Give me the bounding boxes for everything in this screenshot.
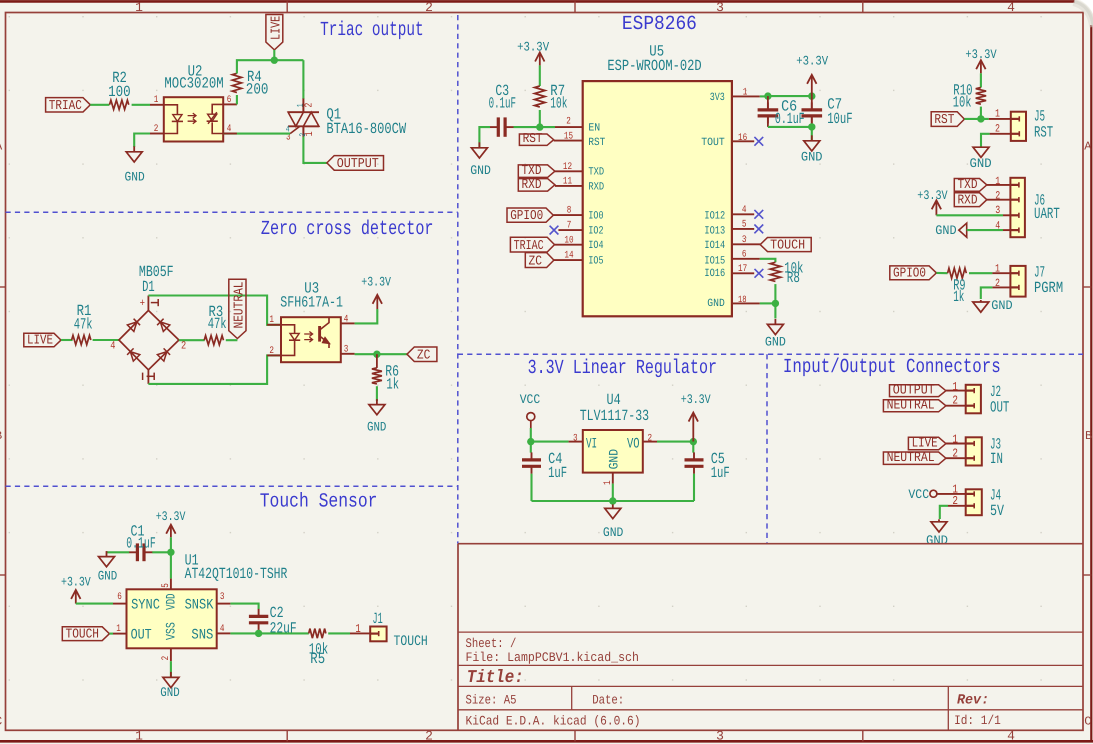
D1 plus terminal (147, 296, 149, 311)
wire R10 to RST junction (980, 107, 982, 119)
title block divider Date|Rev (947, 686, 949, 730)
svg-text:GND: GND (707, 298, 725, 310)
capacitor C3 (490, 126, 499, 128)
svg-text:47k: 47k (208, 315, 227, 333)
svg-text:BTA16-800CW: BTA16-800CW (326, 120, 406, 138)
svg-text:Rev:: Rev: (957, 692, 989, 708)
wire IO15 to R8 (760, 259, 776, 263)
wire VCC to U4 VI (531, 428, 569, 442)
power +3.3V (J6) (935, 202, 937, 215)
wire LIVE to junction (273, 50, 275, 60)
connector J5 RST (1011, 112, 1026, 141)
svg-text:4: 4 (344, 314, 349, 325)
section divider Regulator|IO-Connectors (766, 354, 768, 543)
J5 pin 2 (990, 133, 1011, 135)
wire D1 pin2 to R3 (179, 339, 205, 341)
svg-text:1: 1 (743, 88, 748, 99)
svg-text:IO14: IO14 (704, 240, 725, 252)
svg-text:LIVE: LIVE (27, 334, 53, 349)
title block row line 4 (458, 709, 1083, 711)
power +3.3V (zero cross) (376, 297, 378, 309)
ground below R6 (376, 399, 378, 405)
ground below C3 (478, 142, 480, 148)
U4 pin 1 GND (612, 473, 614, 484)
svg-text:File: LampPCBV1.kicad_sch: File: LampPCBV1.kicad_sch (466, 650, 639, 665)
svg-text:ZC: ZC (529, 254, 543, 269)
svg-text:A: A (1084, 140, 1092, 154)
svg-text:1uF: 1uF (711, 464, 730, 482)
svg-text:TOUCH: TOUCH (770, 238, 805, 253)
global label RXD (ESP) (518, 179, 555, 192)
svg-text:VI: VI (586, 436, 597, 452)
svg-text:VCC: VCC (908, 487, 929, 502)
svg-text:2: 2 (161, 656, 172, 661)
svg-text:GND: GND (603, 525, 624, 540)
resistor R1 (72, 335, 91, 344)
U1 pin 1 (113, 633, 127, 635)
svg-text:+3.3V: +3.3V (965, 47, 996, 62)
svg-text:OUT: OUT (990, 398, 1009, 416)
row tick A|B right (1083, 286, 1091, 288)
svg-text:IO5: IO5 (588, 255, 603, 267)
paper right edge (1090, 25, 1092, 741)
J6 pin 3 (1003, 214, 1010, 216)
global label NEUTRAL (J2) (883, 400, 946, 412)
wire D1 minus to U3 pin 2 (148, 355, 281, 384)
svg-text:SNSK: SNSK (185, 598, 214, 614)
svg-text:12: 12 (563, 162, 572, 173)
svg-text:Title:: Title: (467, 668, 524, 688)
svg-text:5: 5 (742, 220, 747, 231)
no-connect U5 pin 7 (558, 229, 582, 231)
wire R1 to bridge (93, 339, 119, 341)
wire +3.3V to R10 (980, 73, 982, 87)
wire C3 to junction (514, 126, 540, 128)
column tick 2|3 top (574, 1, 576, 12)
global label LIVE (J3) (908, 437, 946, 450)
svg-text:10k: 10k (550, 95, 567, 113)
svg-text:2: 2 (995, 278, 1000, 290)
U1 pin 5 VDD (170, 579, 172, 590)
resistor R8 (770, 262, 780, 281)
svg-text:+3.3V: +3.3V (361, 274, 391, 289)
svg-text:GND: GND (991, 298, 1012, 313)
svg-text:10: 10 (564, 235, 573, 246)
power +3.3V (R10 pullup) (980, 62, 982, 73)
svg-text:2: 2 (952, 494, 958, 508)
svg-text:IO4: IO4 (588, 240, 603, 252)
wire R4 to LIVE junction (237, 60, 304, 73)
wire U1 pin 4 to R5 (230, 632, 308, 634)
svg-text:LIVE: LIVE (912, 437, 938, 452)
svg-text:1: 1 (995, 176, 1000, 188)
svg-text:1k: 1k (953, 288, 964, 306)
paper top edge (0, 0, 1075, 3)
U5 pin 1 3V3 (732, 95, 760, 97)
svg-text:1: 1 (952, 380, 958, 394)
svg-text:7: 7 (567, 221, 572, 232)
U5 pin 6 IO15 (732, 258, 760, 260)
wire C1 to GND (107, 551, 130, 553)
svg-text:0.1uF: 0.1uF (489, 94, 516, 112)
title block row line 2 (458, 664, 1083, 666)
resistor R7 (535, 86, 545, 107)
svg-text:1: 1 (355, 622, 360, 636)
svg-text:NEUTRAL: NEUTRAL (233, 282, 248, 329)
ground below U2 (133, 146, 135, 152)
ground below regulator (612, 504, 614, 508)
global label NEUTRAL (J3) (883, 452, 946, 464)
svg-text:RST: RST (1034, 124, 1053, 142)
connector J3 IN (966, 437, 982, 465)
svg-text:1: 1 (154, 95, 159, 106)
wire +3.3V to J6 pin 3 (936, 214, 1003, 216)
svg-text:1: 1 (952, 433, 958, 447)
junction at SNS node (255, 630, 262, 637)
svg-text:R8: R8 (787, 269, 800, 287)
svg-text:+: + (140, 298, 145, 310)
section divider ESP|Regulator (458, 353, 1083, 355)
svg-text:Zero cross detector: Zero cross detector (261, 218, 434, 241)
capacitor C4 (530, 442, 532, 453)
svg-text:GPIO0: GPIO0 (510, 209, 543, 224)
svg-text:GND: GND (801, 149, 823, 164)
wire Q1 to OUTPUT label (303, 137, 327, 163)
svg-text:GPIO0: GPIO0 (893, 267, 926, 282)
svg-text:2: 2 (181, 341, 186, 353)
svg-text:LIVE: LIVE (269, 16, 284, 40)
svg-text:VO: VO (627, 436, 640, 452)
svg-text:2: 2 (995, 191, 1000, 203)
svg-text:AT42QT1010-TSHR: AT42QT1010-TSHR (185, 565, 288, 583)
capacitor C7 (811, 96, 813, 109)
svg-text:KiCad E.D.A. kicad (6.0.6): KiCad E.D.A. kicad (6.0.6) (466, 714, 641, 729)
wire J5 pin 2 to GND (981, 134, 990, 147)
svg-text:NEUTRAL: NEUTRAL (887, 451, 935, 466)
svg-text:2: 2 (648, 433, 653, 444)
svg-text:2: 2 (952, 394, 958, 408)
svg-text:Sheet: /: Sheet: / (466, 636, 517, 651)
wire U1 pin 3 to C2 (230, 604, 258, 610)
section divider Triac|ZeroCross (6, 211, 458, 213)
svg-text:D1: D1 (142, 278, 155, 296)
svg-text:6: 6 (227, 95, 232, 106)
wire R9 to J7 pin 1 (969, 272, 992, 274)
global label RST (ESP) (519, 134, 553, 145)
J2 pin 1 (946, 390, 966, 392)
resistor R5 (309, 629, 326, 639)
svg-text:4: 4 (227, 124, 232, 135)
U5 pin 18 GND (732, 302, 760, 304)
wire R5 to J1 (328, 632, 350, 634)
U5 pin 10 (555, 244, 583, 246)
ground below R8 (774, 319, 776, 325)
svg-text:GND: GND (125, 170, 145, 185)
column tick 1|2 top (286, 1, 288, 12)
global label ZC (407, 347, 437, 362)
junction at decoupling GND (808, 123, 815, 130)
wire to GND (decoupling) (811, 127, 813, 140)
J3 pin 1 (946, 443, 966, 445)
svg-text:IO13: IO13 (704, 225, 725, 237)
wire R7 to EN junction (540, 110, 555, 127)
no-connect U5 pin 4 IO12 (732, 213, 754, 215)
svg-text:+3.3V: +3.3V (796, 54, 828, 69)
wire GND to J6 pin 4 (967, 229, 1003, 231)
svg-text:4: 4 (220, 624, 225, 635)
J1 pin 1 (350, 632, 370, 634)
connector J7 PGRM (1010, 266, 1025, 297)
svg-text:+3.3V: +3.3V (517, 39, 549, 54)
row tick B|C left (0, 574, 6, 576)
svg-text:17: 17 (738, 264, 747, 275)
power +3.3V (regulator output) (692, 415, 694, 442)
svg-text:B: B (1085, 429, 1092, 443)
svg-text:14: 14 (564, 251, 573, 262)
connector J2 OUT (966, 385, 981, 414)
svg-text:R5: R5 (310, 650, 325, 668)
U4 pin 3 VI (569, 441, 583, 443)
ground below J5 (980, 146, 982, 149)
title block row line 1 (458, 631, 1083, 633)
ground below U1 (170, 672, 172, 678)
svg-text:4: 4 (995, 220, 1000, 232)
J3 pin 2 (946, 457, 966, 459)
U2 pin 2 (150, 133, 164, 135)
U2 internal LED and triac graphics (164, 105, 178, 134)
row tick A|B left (0, 286, 6, 288)
svg-text:+3.3V: +3.3V (681, 392, 711, 407)
svg-text:RST: RST (934, 113, 954, 128)
wire J7 pin 2 to GND (981, 287, 993, 299)
regulator U4 TLV1117-33 (583, 430, 643, 473)
global label TXD (ESP) (518, 165, 555, 178)
svg-text:1uF: 1uF (548, 464, 567, 482)
U3 pin 3 (341, 353, 355, 355)
svg-text:UART: UART (1034, 205, 1060, 223)
svg-text:1k: 1k (386, 375, 399, 393)
power +3.3V (ESP decoupling) (811, 77, 813, 96)
global label ZC (ESP) (525, 253, 554, 268)
resistor R9 (948, 268, 967, 278)
svg-text:GND: GND (98, 568, 118, 583)
global label TRIAC (46, 98, 91, 112)
junction at LIVE node (271, 57, 278, 64)
J7 pin 1 (992, 272, 1010, 274)
svg-text:4: 4 (110, 341, 116, 353)
svg-text:+3.3V: +3.3V (917, 188, 947, 203)
junction at RST node (977, 115, 984, 122)
title block row line 3 (458, 685, 1083, 687)
J6 pin 1 (987, 184, 1011, 186)
global label OUTPUT (J2) (890, 385, 946, 397)
U3 pin 1 (267, 324, 281, 326)
svg-text:5: 5 (161, 583, 172, 588)
svg-text:15: 15 (564, 131, 573, 142)
svg-text:0.1uF: 0.1uF (775, 110, 805, 128)
svg-text:EN: EN (588, 122, 600, 134)
power +3.3V (R7 pullup) (539, 55, 541, 66)
svg-text:IO16: IO16 (704, 268, 725, 280)
svg-text:TOUT: TOUT (701, 137, 725, 149)
svg-text:Date:: Date: (592, 692, 624, 707)
title block outline (458, 544, 1083, 731)
optocoupler U3 SFH617A-1 (281, 317, 341, 362)
wire U2 pin 6 to R4 (236, 95, 238, 104)
svg-text:RXD: RXD (522, 178, 542, 193)
triac Q1 BTA16-800CW (302, 99, 304, 113)
svg-text:2: 2 (154, 124, 159, 135)
ground sideways (J6 pin 4) (959, 223, 967, 237)
svg-text:ESP8266: ESP8266 (622, 13, 697, 36)
U5 pin 12 (555, 170, 583, 172)
wire LIVE to R1 (61, 339, 73, 341)
svg-text:11: 11 (563, 177, 572, 188)
svg-text:RST: RST (588, 137, 605, 149)
svg-text:22uF: 22uF (270, 620, 297, 638)
svg-text:TRIAC: TRIAC (49, 99, 82, 114)
wire VO to +3.3V (657, 441, 693, 443)
junction at C6 (764, 92, 771, 99)
svg-text:+3.3V: +3.3V (156, 509, 186, 524)
U5 pin 11 (555, 185, 583, 187)
J6 pin 4 (1003, 229, 1010, 231)
svg-text:GND: GND (765, 334, 786, 349)
global label GPIO0 (J7) (890, 266, 937, 280)
svg-text:IO0: IO0 (588, 210, 603, 222)
wire RST label to J5 pin 1 (964, 118, 988, 120)
svg-text:1: 1 (135, 729, 143, 744)
U4 pin 2 VO (643, 441, 657, 443)
svg-text:6: 6 (742, 249, 747, 260)
paper bottom edge (0, 740, 1093, 743)
svg-text:1: 1 (269, 315, 274, 326)
svg-text:1: 1 (296, 103, 306, 107)
global label TRIAC (ESP) (510, 237, 554, 252)
svg-text:3: 3 (573, 433, 578, 444)
svg-text:VCC: VCC (520, 392, 541, 407)
svg-text:1: 1 (116, 624, 121, 635)
connector J4 5V (966, 489, 982, 515)
svg-text:2: 2 (952, 446, 958, 460)
global label RXD (J6) (954, 193, 987, 207)
J2 pin 2 (946, 405, 966, 407)
svg-text:3: 3 (344, 345, 349, 356)
junction below R8 (772, 300, 779, 307)
global label LIVE (vertical) (266, 15, 283, 50)
column tick 1|2 bottom (286, 730, 288, 741)
U5 pin 2 EN (555, 126, 583, 128)
title block divider Size|Date (571, 686, 573, 709)
global label LIVE (zero cross) (24, 333, 61, 347)
wire R2 to U2 pin 1 (132, 104, 150, 106)
J4 pin 2 (948, 505, 966, 507)
svg-text:GND: GND (367, 419, 387, 434)
U5 pin 14 (554, 259, 583, 261)
resistor R6 (376, 354, 378, 368)
wire U3 pin 4 to +3.3V (355, 309, 378, 323)
global label GPIO0 (ESP) (507, 208, 553, 222)
wire junction to Q1 top (302, 60, 304, 99)
svg-text:1: 1 (995, 108, 1000, 120)
wire R6 to GND (376, 386, 378, 401)
svg-text:SFH617A-1: SFH617A-1 (280, 294, 343, 312)
svg-text:VDD: VDD (164, 593, 179, 610)
resistor R10 (976, 88, 986, 105)
svg-text:SYNC: SYNC (131, 598, 160, 614)
svg-text:TOUCH: TOUCH (394, 634, 428, 650)
svg-text:16: 16 (738, 133, 747, 144)
global label TOUCH (input) (62, 627, 109, 641)
ground below J4 (938, 519, 940, 522)
svg-text:3: 3 (716, 729, 724, 744)
svg-text:47k: 47k (74, 316, 93, 334)
wire U5 GND to junction (760, 302, 776, 304)
global label RST (J5) (931, 112, 964, 127)
svg-text:IO12: IO12 (704, 210, 725, 222)
junction at C7 (808, 92, 815, 99)
svg-text:18: 18 (738, 294, 747, 305)
ground below J7 (980, 300, 982, 302)
global label TOUCH (ESP) (760, 238, 811, 252)
wire U2 pin 4 to Q1 gate (223, 133, 290, 135)
resistor R3 (204, 336, 223, 345)
connector J6 UART (1010, 178, 1025, 237)
resistor R4 (232, 73, 241, 92)
capacitor C2 (258, 609, 260, 617)
svg-text:10k: 10k (953, 93, 972, 111)
U3 internal LED and phototransistor (281, 325, 295, 356)
ground below C7 (811, 135, 813, 141)
svg-text:GND: GND (470, 163, 491, 178)
svg-text:Id: 1/1: Id: 1/1 (954, 713, 1001, 728)
U3 pin 2 (267, 354, 281, 356)
section divider ZeroCross|Touch (6, 485, 458, 487)
svg-text:TRIAC: TRIAC (514, 239, 544, 254)
J5 pin 1 (989, 118, 1011, 120)
capacitor C6 (767, 96, 769, 109)
J4 pin 1 (937, 493, 966, 495)
U1 pin 6 (113, 603, 127, 605)
svg-text:RXD: RXD (958, 193, 978, 208)
IC U1 AT42QT1010-TSHR (127, 589, 217, 648)
svg-text:3: 3 (220, 592, 225, 603)
junction at EN node (536, 123, 543, 130)
svg-text:ZC: ZC (417, 348, 431, 363)
svg-text:GND: GND (970, 156, 992, 171)
U2 pin 1 (150, 104, 164, 106)
svg-text:OUTPUT: OUTPUT (893, 383, 935, 398)
svg-text:PGRM: PGRM (1034, 279, 1063, 297)
svg-text:SNS: SNS (191, 628, 213, 644)
row tick B|C right (1083, 574, 1091, 576)
U3 pin 4 (341, 322, 355, 324)
svg-text:TXD: TXD (958, 178, 978, 193)
wire C1 to junction and U1 VDD (152, 551, 171, 553)
global label OUTPUT (327, 156, 384, 171)
capacitor C5 (692, 442, 694, 453)
U5 pin 8 (553, 214, 582, 216)
svg-text:Input/Output Connectors: Input/Output Connectors (783, 356, 1001, 379)
svg-text:3V3: 3V3 (710, 92, 725, 104)
svg-text:J1: J1 (373, 610, 383, 628)
U2 pin 6 (223, 103, 237, 105)
wire D1 plus to U3 pin 1 (148, 296, 281, 325)
IC U5 ESP-WROOM-02D (583, 81, 732, 316)
svg-text:2: 2 (298, 133, 308, 137)
wire R3 to NEUTRAL (226, 339, 238, 341)
svg-text:4: 4 (742, 205, 747, 216)
